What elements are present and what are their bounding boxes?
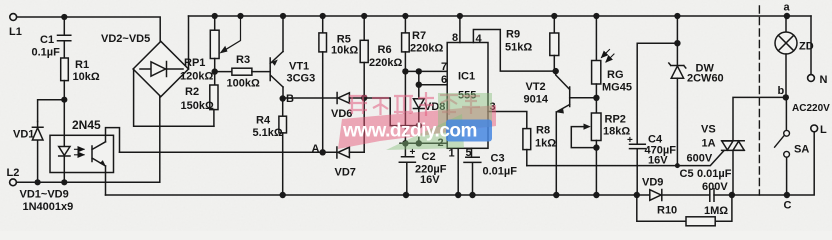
svg-text:C1: C1: [40, 34, 54, 46]
svg-text:220kΩ: 220kΩ: [410, 43, 443, 55]
svg-text:A: A: [312, 143, 320, 155]
svg-text:0.01µF: 0.01µF: [697, 168, 732, 180]
svg-text:5.1kΩ: 5.1kΩ: [253, 127, 283, 139]
node junction R1 bottom: [61, 97, 67, 103]
wire opto collector jog: [106, 128, 120, 153]
capacitor C5 (in ground rail): [710, 189, 714, 201]
svg-text:C3: C3: [491, 153, 505, 165]
svg-text:1N4001x9: 1N4001x9: [23, 201, 74, 213]
node b: [783, 94, 789, 100]
svg-text:0.1µF: 0.1µF: [32, 47, 61, 59]
pink band: [338, 105, 496, 149]
node C1 top: [61, 14, 67, 20]
svg-text:RP2: RP2: [605, 114, 626, 126]
pot RP2 wiper: [571, 127, 596, 148]
svg-text:51kΩ: 51kΩ: [505, 42, 532, 54]
svg-text:VT1: VT1: [289, 61, 309, 73]
wire node B line: [283, 97, 337, 99]
node R6/VD6 junction: [361, 95, 367, 101]
capacitor C4: [630, 43, 678, 195]
svg-text:B: B: [286, 93, 294, 105]
resistor R3: [215, 71, 232, 73]
wire VD6 jog to VD8 column: [364, 98, 419, 126]
svg-text:a: a: [784, 2, 791, 14]
wire triac gate line: [527, 151, 724, 166]
diode VD9 (in ground rail): [661, 190, 663, 201]
svg-text:1A: 1A: [702, 138, 716, 150]
svg-text:0.01µF: 0.01µF: [483, 166, 518, 178]
svg-text:RG: RG: [607, 69, 624, 81]
svg-text:4: 4: [476, 33, 483, 45]
svg-text:R9: R9: [506, 29, 520, 41]
wire top rail AC L1 to bridge top: [17, 17, 160, 42]
junction VD1 bottom: [35, 179, 41, 185]
svg-text:16V: 16V: [648, 155, 668, 167]
lamp ZD: [785, 16, 787, 32]
svg-text:5: 5: [466, 147, 472, 159]
wire pin 1: [457, 148, 459, 195]
svg-text:R6: R6: [378, 44, 392, 56]
node C: [784, 192, 790, 198]
svg-text:R7: R7: [412, 30, 426, 42]
wire long node-A line: [120, 151, 337, 153]
wire ground rail: [106, 132, 815, 195]
svg-text:600V: 600V: [687, 153, 713, 165]
diode VD1: [32, 122, 43, 183]
bridge inner diode: [140, 62, 183, 77]
pot RP1 wiper: [237, 13, 243, 19]
wire pin 6: [419, 84, 447, 86]
svg-text:VS: VS: [701, 124, 716, 136]
diode VD8 column: [418, 71, 420, 98]
watermark: [338, 92, 496, 150]
node a: [784, 13, 790, 19]
wire top rail DC: [189, 15, 812, 17]
terminal L1: [10, 14, 17, 21]
svg-text:VD1: VD1: [13, 129, 34, 141]
svg-text:www.dzdiy.com: www.dzdiy.com: [342, 121, 477, 142]
svg-text:150kΩ: 150kΩ: [181, 100, 214, 112]
svg-text:220kΩ: 220kΩ: [369, 57, 402, 69]
wire opto emitter to ground rail: [105, 166, 107, 195]
pot RP1: [214, 16, 216, 30]
node pin7 junction: [402, 68, 408, 74]
svg-text:MG45: MG45: [602, 82, 632, 94]
optocoupler phototransistor: [92, 142, 106, 166]
svg-text:8: 8: [452, 32, 458, 44]
svg-text:R4: R4: [256, 115, 271, 127]
node VD8/jog junction: [416, 122, 422, 128]
optocoupler LED: [59, 100, 70, 183]
svg-text:R2: R2: [185, 86, 199, 98]
svg-text:SA: SA: [794, 144, 809, 156]
svg-text:C5: C5: [680, 168, 694, 180]
diode VD6: [336, 93, 338, 104]
wire bridge right vertex up to DC rail: [188, 16, 190, 69]
svg-text:C: C: [784, 200, 792, 212]
capacitor C1: [58, 17, 71, 58]
svg-text:1MΩ: 1MΩ: [704, 205, 728, 217]
transistor VT2: [556, 71, 570, 195]
svg-text:1: 1: [449, 148, 455, 160]
svg-text:R10: R10: [657, 205, 677, 217]
node VT2 base / RG / RP2: [593, 95, 599, 101]
wire pin 3: [488, 112, 527, 129]
node B: [280, 95, 286, 101]
resistor R2: [210, 85, 218, 110]
bridge rectifier VD2~VD5 diamond: [133, 41, 188, 96]
pot RP2: [591, 113, 601, 141]
svg-text:RP1: RP1: [184, 57, 205, 69]
svg-text:R3: R3: [236, 54, 250, 66]
svg-text:C2: C2: [422, 151, 436, 163]
svg-text:+: +: [627, 135, 633, 146]
triac VS: [733, 97, 786, 195]
svg-text:VD1~VD9: VD1~VD9: [20, 189, 69, 201]
photoresistor RG: [593, 13, 599, 19]
svg-text:ZD: ZD: [799, 41, 814, 53]
svg-text:1kΩ: 1kΩ: [535, 138, 556, 150]
photoresistor RG arrows: [602, 50, 610, 58]
capacitor C2: [399, 143, 415, 195]
wire to VD1: [38, 100, 65, 122]
svg-text:16V: 16V: [420, 174, 440, 186]
wire L2 rail: [17, 97, 160, 183]
optocoupler 2N45 box: [50, 135, 114, 172]
svg-text:L2: L2: [7, 167, 20, 179]
wire pin 5 / capacitor C3: [464, 148, 481, 195]
wire pin 4 jog: [473, 30, 555, 72]
diode VD7: [336, 147, 338, 158]
svg-text:R8: R8: [536, 125, 550, 137]
resistor R1: [61, 58, 69, 81]
svg-text:7: 7: [441, 61, 447, 73]
blue box: [446, 120, 492, 142]
node RP1/R2/R3 junction: [212, 68, 218, 74]
svg-text:10kΩ: 10kΩ: [73, 71, 100, 83]
svg-text:VD2~VD5: VD2~VD5: [101, 33, 150, 45]
node VD8 top: [416, 68, 422, 74]
svg-text:6: 6: [441, 74, 447, 86]
svg-text:IC1: IC1: [458, 71, 475, 83]
svg-text:2N45: 2N45: [72, 118, 101, 132]
svg-text:VD7: VD7: [335, 167, 356, 179]
optocoupler light arrows: [75, 148, 85, 150]
svg-text:R1: R1: [75, 59, 89, 71]
zener DW: [674, 13, 680, 19]
svg-text:100kΩ: 100kΩ: [227, 78, 260, 90]
diode VD8: [413, 109, 424, 144]
resistor R10 loop: [637, 195, 732, 221]
svg-text:3CG3: 3CG3: [287, 73, 316, 85]
IC1 555 box: [447, 43, 488, 149]
resistor R5: [320, 13, 326, 19]
resistor R6: [361, 13, 367, 19]
resistor R8: [523, 129, 531, 150]
dashed separator line: [758, 6, 760, 195]
switch SA: [785, 97, 787, 130]
svg-text:b: b: [778, 85, 785, 97]
resistor R7: [402, 13, 408, 19]
terminal L: [811, 125, 818, 132]
wire pin 7: [405, 70, 447, 72]
junction LED cathode: [61, 179, 67, 185]
svg-text:VD9: VD9: [642, 177, 663, 189]
svg-text:120kΩ: 120kΩ: [180, 71, 213, 83]
svg-text:VT2: VT2: [526, 81, 546, 93]
wire pin 2: [400, 142, 447, 144]
green patch: [438, 93, 492, 127]
wire pin 8: [457, 13, 463, 19]
svg-text:L1: L1: [9, 26, 22, 38]
node A: [320, 149, 326, 155]
svg-text:600V: 600V: [702, 181, 728, 193]
terminal L2: [10, 179, 17, 186]
svg-text:9014: 9014: [524, 94, 549, 106]
wire bridge left vertex down to R2 line: [134, 69, 214, 126]
resistor R4: [282, 99, 284, 117]
svg-text:L: L: [820, 124, 827, 136]
transistor VT1: [270, 52, 283, 88]
resistor R9: [551, 13, 557, 19]
svg-text:2CW60: 2CW60: [687, 73, 724, 85]
svg-text:10kΩ: 10kΩ: [331, 45, 358, 57]
svg-text:N: N: [820, 74, 828, 86]
node pin4/R9/VT2 collector: [553, 68, 559, 74]
terminal N: [810, 16, 812, 75]
svg-text:AC220V: AC220V: [792, 103, 830, 114]
